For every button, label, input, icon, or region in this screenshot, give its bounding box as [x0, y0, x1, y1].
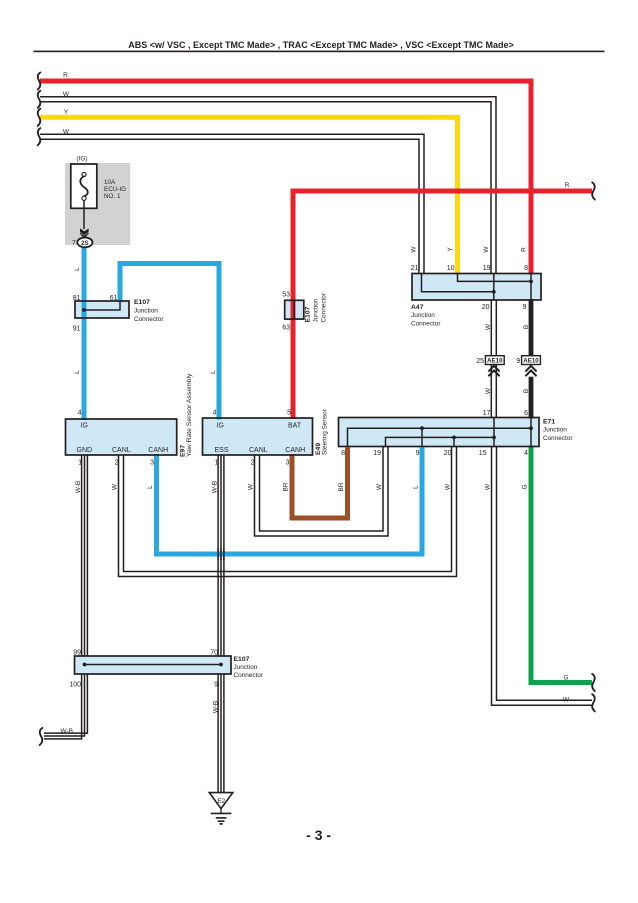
svg-text:W: W [485, 323, 492, 330]
svg-text:8: 8 [341, 450, 345, 457]
svg-text:4: 4 [213, 410, 217, 417]
svg-text:W: W [563, 697, 570, 704]
svg-text:B: B [523, 325, 530, 329]
svg-text:Connector: Connector [321, 292, 328, 322]
svg-text:W: W [411, 246, 418, 253]
svg-text:4: 4 [524, 450, 528, 457]
svg-text:IG: IG [81, 423, 88, 430]
svg-text:(IG): (IG) [76, 156, 87, 163]
svg-text:E107: E107 [234, 656, 250, 663]
svg-text:L: L [147, 485, 154, 489]
svg-text:4: 4 [78, 410, 82, 417]
svg-text:Connector: Connector [234, 672, 264, 679]
svg-text:81: 81 [73, 295, 81, 302]
svg-text:W: W [112, 483, 119, 490]
svg-text:IG: IG [217, 423, 224, 430]
svg-text:Yaw Rate Sensor Assembly: Yaw Rate Sensor Assembly [186, 373, 193, 457]
svg-text:G: G [563, 675, 568, 682]
svg-text:CANH: CANH [148, 447, 168, 454]
svg-text:E71: E71 [543, 419, 555, 426]
svg-text:19: 19 [483, 265, 491, 272]
svg-text:10: 10 [447, 265, 455, 272]
svg-text:A47: A47 [411, 304, 424, 311]
svg-text:GND: GND [77, 447, 93, 454]
svg-text:Junction: Junction [234, 664, 258, 671]
svg-text:W: W [445, 483, 452, 490]
svg-text:61: 61 [110, 295, 118, 302]
svg-text:W-B: W-B [60, 728, 73, 735]
svg-text:AE10: AE10 [487, 358, 503, 365]
svg-text:B: B [523, 389, 530, 393]
svg-text:Connector: Connector [411, 321, 441, 328]
svg-text:R: R [565, 182, 570, 189]
svg-text:E107: E107 [305, 306, 312, 322]
svg-text:ESS: ESS [215, 447, 229, 454]
svg-text:W: W [485, 387, 492, 394]
svg-text:L: L [74, 370, 81, 374]
svg-text:CANH: CANH [285, 447, 305, 454]
svg-text:W: W [376, 483, 383, 490]
svg-text:L: L [210, 370, 217, 374]
svg-text:9: 9 [416, 450, 420, 457]
svg-text:E2: E2 [217, 798, 225, 805]
svg-text:20: 20 [444, 450, 452, 457]
svg-text:5: 5 [287, 410, 291, 417]
svg-text:Connector: Connector [134, 316, 164, 323]
svg-text:L: L [74, 267, 81, 271]
svg-text:W-B: W-B [212, 481, 219, 494]
svg-text:3: 3 [150, 460, 154, 467]
svg-text:BAT: BAT [288, 423, 302, 430]
svg-text:BR: BR [283, 482, 290, 491]
svg-text:Steering Sensor: Steering Sensor [322, 408, 329, 455]
svg-text:G: G [522, 484, 529, 489]
svg-text:9: 9 [516, 358, 520, 365]
svg-text:CANL: CANL [249, 447, 268, 454]
svg-text:3: 3 [286, 460, 290, 467]
svg-text:2: 2 [115, 460, 119, 467]
svg-text:BR: BR [338, 482, 345, 491]
svg-text:8: 8 [524, 265, 528, 272]
svg-text:W: W [483, 246, 490, 253]
svg-text:W: W [485, 483, 492, 490]
svg-text:W-B: W-B [75, 481, 82, 494]
svg-text:ABS <w/ VSC , Except TMC Made>: ABS <w/ VSC , Except TMC Made> , TRAC <E… [128, 40, 514, 50]
svg-text:7: 7 [72, 240, 76, 247]
svg-text:W: W [63, 128, 70, 135]
svg-text:91: 91 [73, 326, 81, 333]
svg-text:R: R [521, 247, 528, 252]
svg-text:63: 63 [282, 325, 290, 332]
svg-text:- 3 -: - 3 - [306, 827, 331, 843]
svg-text:99: 99 [73, 650, 81, 657]
svg-text:CANL: CANL [112, 447, 131, 454]
svg-text:70: 70 [210, 650, 218, 657]
svg-text:Junction: Junction [313, 298, 320, 322]
svg-text:2: 2 [251, 460, 255, 467]
svg-text:2S: 2S [81, 240, 89, 247]
svg-text:Y: Y [447, 247, 454, 252]
svg-text:53: 53 [282, 292, 290, 299]
svg-text:NO. 1: NO. 1 [104, 193, 121, 200]
svg-text:10A: 10A [104, 179, 116, 186]
svg-text:R: R [63, 72, 68, 79]
svg-text:19: 19 [373, 450, 381, 457]
svg-text:9: 9 [523, 304, 527, 311]
svg-text:Junction: Junction [411, 312, 435, 319]
svg-text:6: 6 [524, 410, 528, 417]
svg-text:25: 25 [476, 358, 484, 365]
svg-text:L: L [413, 485, 420, 489]
svg-text:Connector: Connector [543, 435, 573, 442]
svg-text:Junction: Junction [134, 308, 158, 315]
svg-text:E107: E107 [134, 299, 150, 306]
svg-text:21: 21 [411, 265, 419, 272]
svg-text:ECU-IG: ECU-IG [104, 186, 126, 193]
svg-text:15: 15 [479, 450, 487, 457]
svg-text:1: 1 [78, 460, 82, 467]
svg-text:9: 9 [214, 682, 218, 689]
svg-text:17: 17 [483, 410, 491, 417]
svg-text:100: 100 [69, 682, 81, 689]
svg-text:1: 1 [215, 460, 219, 467]
svg-text:Y: Y [64, 109, 69, 116]
svg-text:20: 20 [482, 304, 490, 311]
svg-text:W: W [63, 91, 70, 98]
svg-text:W-B: W-B [213, 701, 220, 714]
svg-text:AE10: AE10 [523, 358, 539, 365]
svg-text:W: W [248, 483, 255, 490]
svg-text:Junction: Junction [543, 427, 567, 434]
